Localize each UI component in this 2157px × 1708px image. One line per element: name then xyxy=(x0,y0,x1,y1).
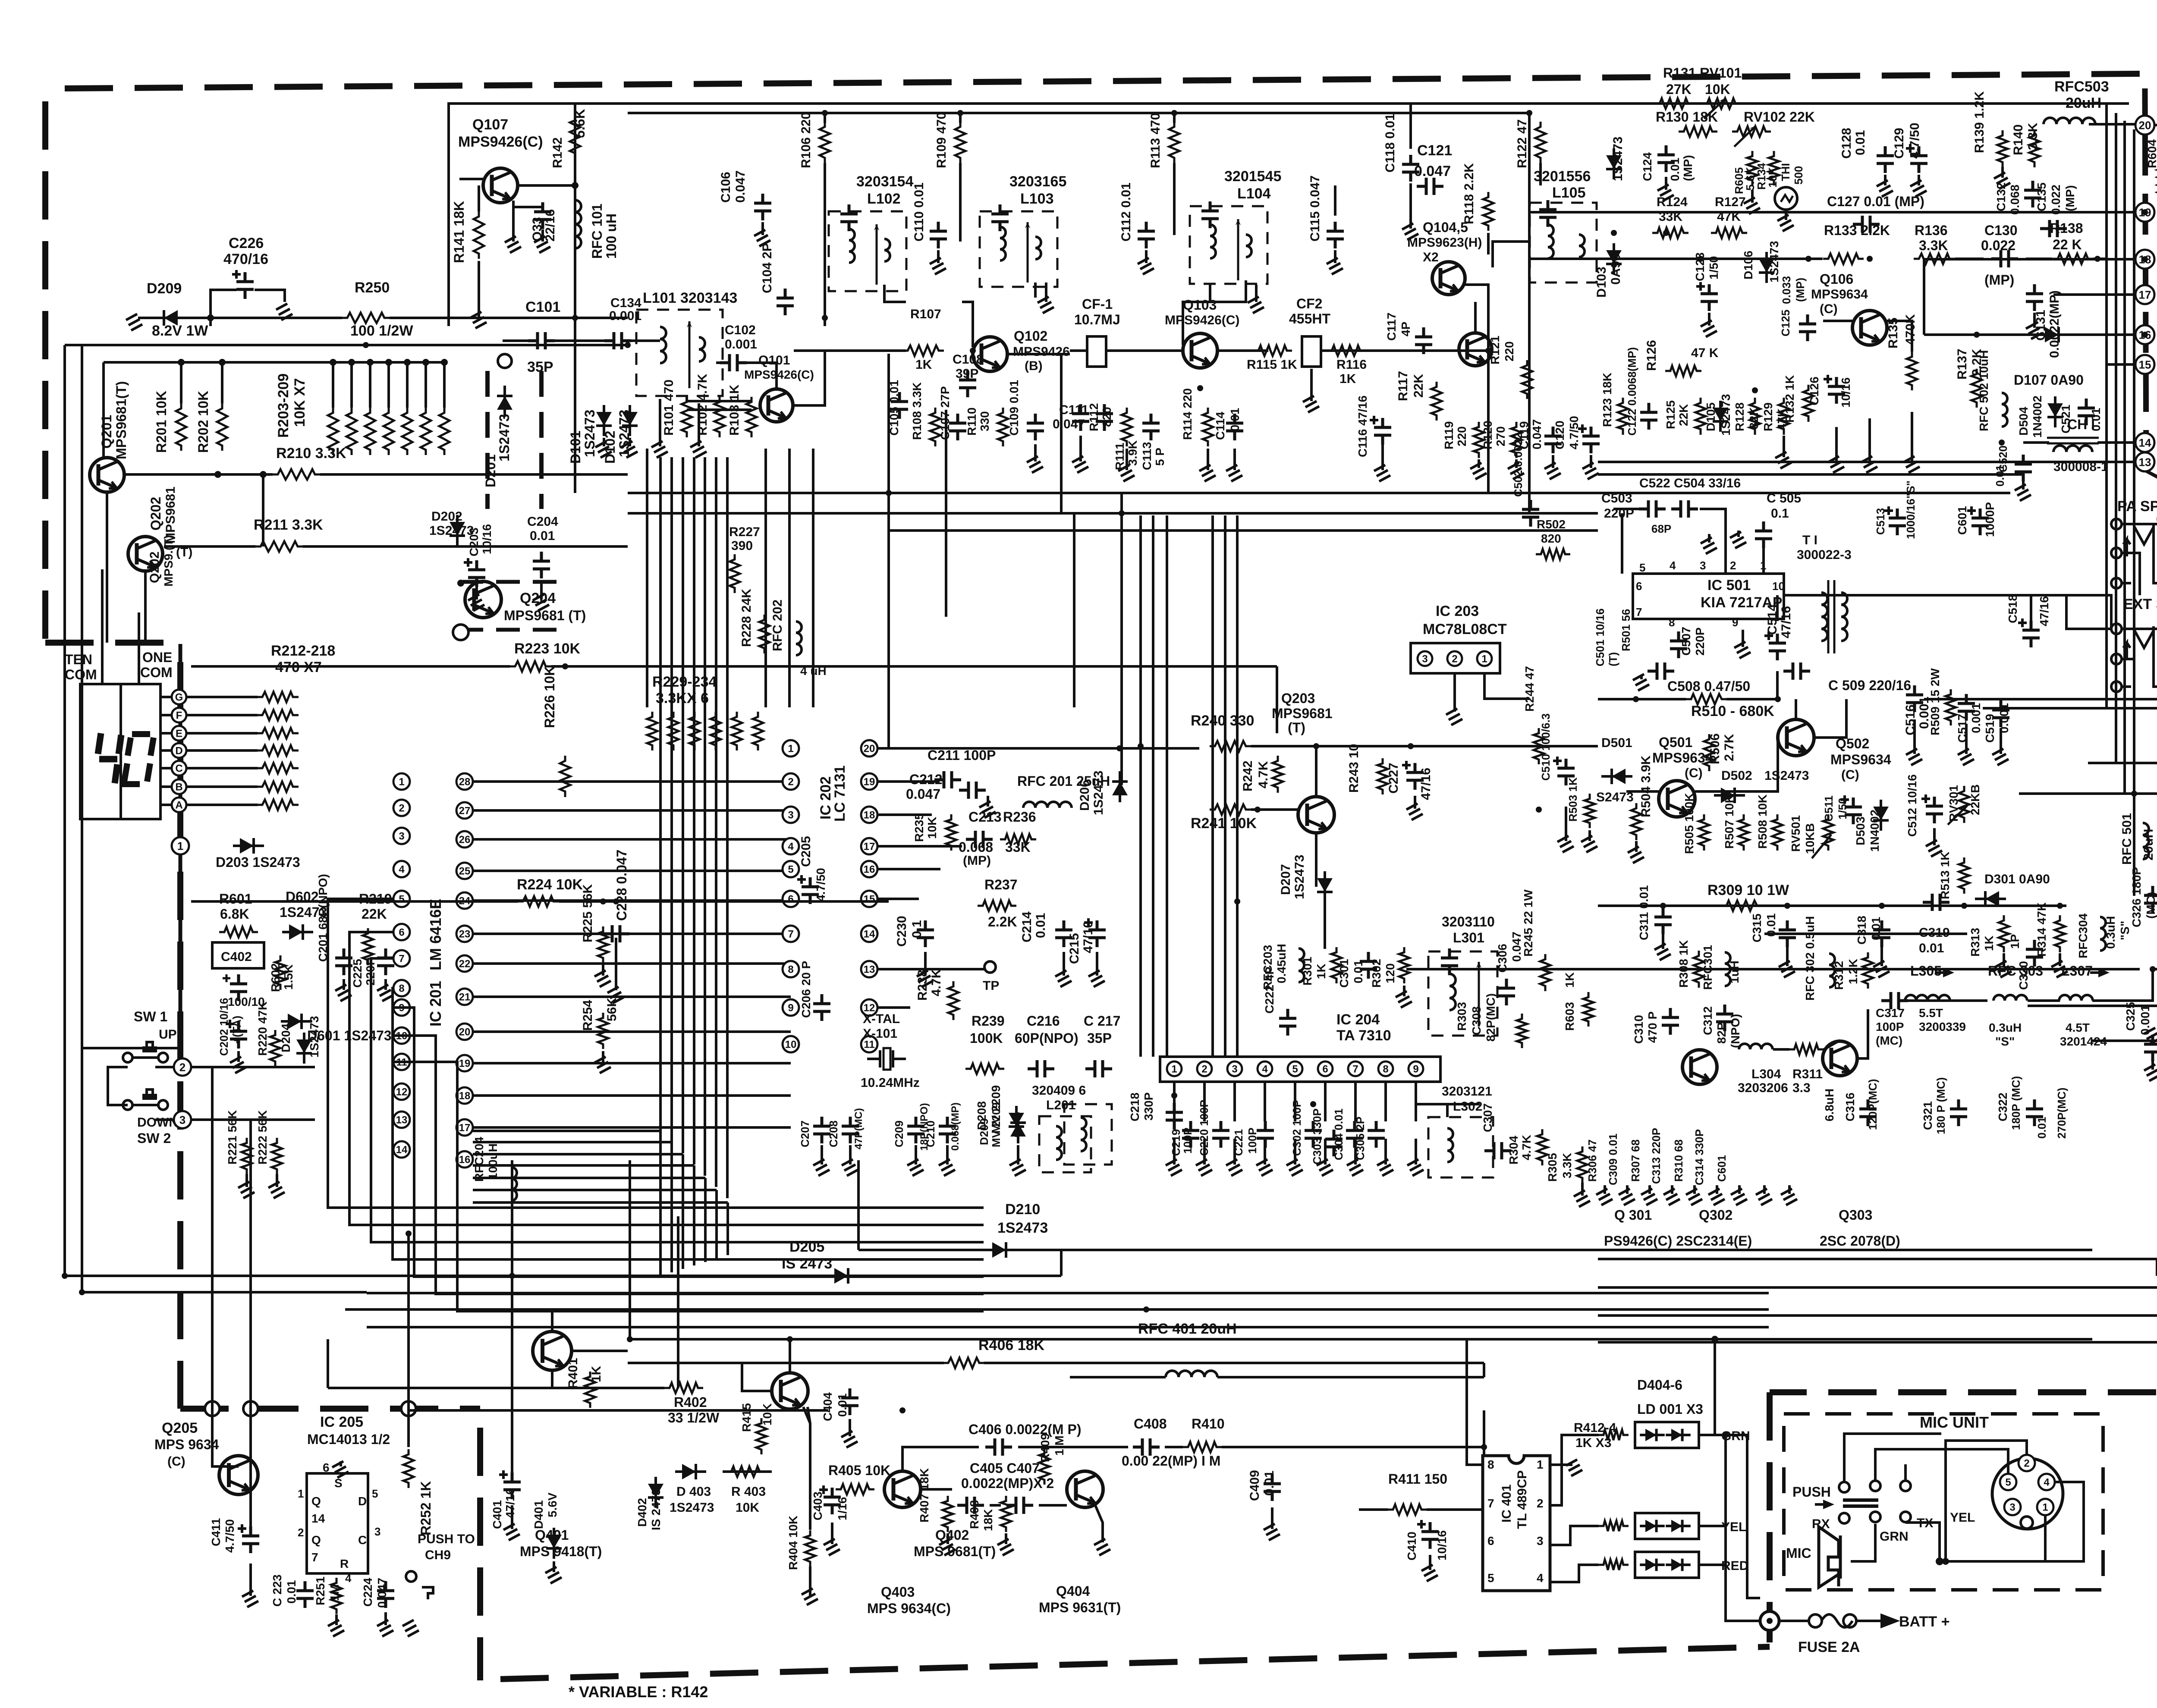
capacitor C114 xyxy=(1226,414,1243,440)
wire 19 line xyxy=(1924,258,2135,261)
capacitor C117 xyxy=(1415,327,1432,354)
diode D203 xyxy=(240,838,254,854)
svg-text:16: 16 xyxy=(864,864,875,876)
wire node2 vertical through border xyxy=(212,1067,239,1466)
svg-text:R124: R124 xyxy=(1657,195,1688,209)
svg-text:C510 100/6.3: C510 100/6.3 xyxy=(1539,713,1552,781)
junction dot 1912x737 xyxy=(822,315,828,321)
display segment node D xyxy=(172,743,186,758)
wire Q401 line xyxy=(572,1350,628,1352)
capacitor C411 xyxy=(238,1524,246,1533)
IC204 pin 2 xyxy=(1197,1061,1212,1076)
svg-text:R405 10K: R405 10K xyxy=(828,1463,890,1478)
ground C318 xyxy=(1873,942,1890,977)
wire IC401 top feed2 xyxy=(1483,1410,1485,1447)
svg-text:5: 5 xyxy=(399,894,404,905)
wire mic pin1 wire xyxy=(2045,1482,2084,1561)
junction R206 top xyxy=(385,359,392,366)
wire left vert 1 xyxy=(63,345,66,1276)
svg-text:390: 390 xyxy=(731,539,753,553)
capacitor C126 xyxy=(1828,377,1845,404)
junction dot 4121x1621 xyxy=(1775,696,1781,702)
resistor R131 xyxy=(1654,98,1693,109)
dashed box L101 xyxy=(636,310,723,396)
wire center bus v1 xyxy=(887,531,890,748)
LED D405 b xyxy=(1671,1520,1682,1532)
svg-text:R122 47: R122 47 xyxy=(1515,119,1529,168)
diode D501 xyxy=(1612,769,1626,784)
IC201 pin 23 xyxy=(456,926,473,942)
svg-text:C216: C216 xyxy=(1027,1013,1060,1029)
svg-text:1.2K: 1.2K xyxy=(1846,959,1860,984)
border left dashed xyxy=(42,101,48,643)
ground D209 left xyxy=(126,314,142,330)
junction dot 4862x600 xyxy=(2094,256,2100,262)
ground TX row x4148 xyxy=(1781,1185,1797,1205)
capacitor C519 xyxy=(1992,700,2009,727)
transistor Q204 xyxy=(465,581,501,618)
capacitor C127 xyxy=(1853,216,1880,233)
svg-text:E: E xyxy=(176,728,182,740)
mic plug notch xyxy=(2021,1516,2033,1529)
svg-text:C410: C410 xyxy=(1405,1532,1418,1560)
svg-text:D107 0A90: D107 0A90 xyxy=(2014,372,2084,388)
svg-text:1: 1 xyxy=(399,776,404,788)
svg-text:R109 470: R109 470 xyxy=(934,112,949,168)
svg-text:3201545: 3201545 xyxy=(1224,168,1281,185)
IC201 pin 10 xyxy=(393,1027,410,1044)
wire Q104 chain xyxy=(1465,285,1488,302)
capacitor C203 xyxy=(464,558,472,567)
svg-text:PS9426(C) 2SC2314(E): PS9426(C) 2SC2314(E) xyxy=(1604,1233,1752,1249)
svg-text:CH I: CH I xyxy=(2067,417,2095,432)
dashed box L302 xyxy=(1428,1117,1493,1177)
wire IC203 down xyxy=(1484,673,1529,699)
capacitor C402 xyxy=(230,974,247,1001)
transistor Q106 xyxy=(1852,311,1887,345)
diode D208 xyxy=(1009,1113,1024,1127)
wire R250 to right xyxy=(390,317,628,319)
svg-text:MC78L08CT: MC78L08CT xyxy=(1423,621,1507,637)
svg-text:(T): (T) xyxy=(1288,720,1305,735)
svg-text:2.2K: 2.2K xyxy=(988,914,1017,929)
resistor R127 xyxy=(1711,228,1747,238)
wire C101 to C134 xyxy=(553,339,606,342)
svg-text:R229-234: R229-234 xyxy=(652,674,717,690)
wire R402 rail join xyxy=(327,1339,329,1388)
ground C404 xyxy=(841,1419,858,1447)
junction dot 3440x3355 xyxy=(1481,1444,1487,1450)
svg-text:Q104,5: Q104,5 xyxy=(1423,220,1468,235)
wire drop x2722 xyxy=(1173,163,1176,235)
svg-text:IC 203: IC 203 xyxy=(1436,603,1479,619)
svg-text:D: D xyxy=(175,745,182,757)
svg-text:(B): (B) xyxy=(1025,359,1043,373)
svg-text:C130: C130 xyxy=(1984,223,2018,238)
svg-text:C219: C219 xyxy=(1170,1129,1182,1156)
IC201 pin 21 xyxy=(456,989,473,1005)
svg-text:R310 68: R310 68 xyxy=(1672,1140,1685,1182)
IC202 pin 19 xyxy=(861,773,877,790)
wire R402 rail left xyxy=(328,1387,664,1389)
connector pin 20 xyxy=(2135,116,2154,135)
resistor R251 xyxy=(331,1578,342,1614)
svg-text:RFC301: RFC301 xyxy=(1701,945,1714,990)
svg-text:D206: D206 xyxy=(1078,780,1092,811)
junction mic common xyxy=(1936,1557,1943,1565)
svg-text:22K: 22K xyxy=(1412,374,1426,398)
svg-text:20: 20 xyxy=(459,1027,471,1038)
wire led bus xyxy=(1747,1462,1760,1598)
wire top drop R109 xyxy=(959,113,962,123)
svg-text:R239: R239 xyxy=(972,1013,1005,1029)
resistor R309 xyxy=(1721,901,1762,911)
svg-text:MV 2209: MV 2209 xyxy=(990,1102,1003,1147)
wire Q101 out xyxy=(794,351,825,405)
wire IC401 pin2 to R412 xyxy=(1550,1435,1598,1505)
svg-text:22K: 22K xyxy=(362,906,387,922)
diode D102 xyxy=(622,412,638,426)
svg-text:R507 10K: R507 10K xyxy=(1723,794,1736,849)
svg-text:C127 0.01 (MP): C127 0.01 (MP) xyxy=(1827,194,1924,209)
wire segment C xyxy=(160,767,172,769)
ground C202 xyxy=(230,1051,246,1073)
BATT arrow xyxy=(1868,1615,1896,1626)
resistor R109 xyxy=(955,122,965,163)
capacitor C129 xyxy=(1910,146,1927,173)
wire R136 to C130 xyxy=(1955,257,1984,260)
svg-text:3203154: 3203154 xyxy=(856,173,913,190)
junction dot 2226x262 xyxy=(957,110,963,116)
transistor Q105 xyxy=(1459,333,1492,366)
ground R141 xyxy=(470,261,487,328)
resistor R134 xyxy=(1769,151,1779,185)
diode D401 xyxy=(546,1535,562,1548)
svg-text:C 217: C 217 xyxy=(1084,1013,1120,1029)
svg-text:C512 10/16: C512 10/16 xyxy=(1905,774,1919,837)
svg-text:C226: C226 xyxy=(229,235,264,251)
svg-text:R309 10 1W: R309 10 1W xyxy=(1707,882,1789,898)
resistor R403 xyxy=(726,1466,765,1477)
svg-text:220: 220 xyxy=(1503,341,1516,361)
svg-text:6: 6 xyxy=(1322,1064,1328,1075)
border bottom dashed xyxy=(500,1647,1770,1679)
capacitor C511 xyxy=(1840,795,1849,804)
ground C228 xyxy=(607,987,624,1003)
svg-text:1: 1 xyxy=(1537,1458,1544,1471)
junction dot 1398x2090 xyxy=(600,898,606,904)
svg-text:R133 2.2K: R133 2.2K xyxy=(1824,223,1890,238)
wire pin20 to PA xyxy=(2154,125,2157,129)
resistor R201 xyxy=(176,403,186,451)
svg-text:10/16: 10/16 xyxy=(1435,1530,1449,1560)
IC202 pin 18 xyxy=(861,807,877,823)
svg-text:27: 27 xyxy=(459,805,471,817)
svg-text:RFC 401 20uH: RFC 401 20uH xyxy=(1138,1321,1237,1337)
diode D503 xyxy=(1873,807,1889,820)
svg-text:R227: R227 xyxy=(729,525,760,539)
choke RFC502 xyxy=(2002,393,2007,427)
IC201 pin 12 xyxy=(393,1083,410,1100)
wire IC201 right pin bus y2614 xyxy=(473,1126,791,1129)
svg-text:8: 8 xyxy=(1669,616,1675,629)
connector pin 14 xyxy=(2135,433,2154,452)
diode D202 xyxy=(450,522,465,536)
svg-text:3: 3 xyxy=(1232,1064,1237,1075)
wire LED bus YEL xyxy=(1699,1525,1726,1527)
wire Q402 rail xyxy=(628,1338,2092,1341)
svg-text:C135: C135 xyxy=(2035,182,2048,211)
bus vertical center x1775 xyxy=(764,449,767,707)
wire IC204 pin3 drop xyxy=(1233,1082,1236,1121)
ground C325 xyxy=(2144,1061,2157,1081)
wire audio out xyxy=(1784,594,2066,597)
wire drop x3095 xyxy=(1334,185,1336,216)
wire bus y2998 xyxy=(367,1292,1769,1294)
svg-text:R241 10K: R241 10K xyxy=(1191,815,1257,832)
svg-text:3203206: 3203206 xyxy=(1738,1081,1788,1095)
resistor R235 xyxy=(946,814,956,851)
bus vertical mid x2644 xyxy=(1139,515,1142,1057)
bus vertical x2460 xyxy=(1060,354,1063,513)
svg-text:5: 5 xyxy=(788,864,793,876)
dashed box Q204 xyxy=(459,580,559,584)
pot RV102 arrow xyxy=(1734,126,1756,147)
junction dot 2644x1730 xyxy=(1138,743,1144,749)
IC202 pin 17 xyxy=(861,838,877,854)
coil L307 xyxy=(2059,995,2093,1001)
svg-text:A: A xyxy=(175,800,182,811)
junction dot 2060x1143 xyxy=(886,490,892,496)
svg-text:RV102 22K: RV102 22K xyxy=(1744,109,1815,125)
svg-text:220P: 220P xyxy=(1693,628,1707,656)
ground R408 xyxy=(997,1533,1014,1555)
capacitor C305 xyxy=(1368,1121,1385,1148)
ground C212 xyxy=(979,796,996,818)
resistor R226 xyxy=(560,756,570,797)
svg-text:25: 25 xyxy=(459,866,471,877)
svg-text:R508 10K: R508 10K xyxy=(1756,794,1769,849)
capacitor C135 xyxy=(2040,220,2067,237)
svg-text:R250: R250 xyxy=(355,279,390,296)
ground R314 xyxy=(2051,953,2068,977)
svg-text:R123 18K: R123 18K xyxy=(1600,373,1614,427)
corner bundle horizontal 7 xyxy=(473,1201,728,1204)
wire pin16 left xyxy=(1924,333,2038,336)
wire pin8 left xyxy=(2153,968,2157,970)
junction R208 top xyxy=(422,359,429,366)
wire R133 line xyxy=(1529,257,1823,260)
wire Q107 base xyxy=(459,178,483,180)
resistor R107 xyxy=(902,345,944,356)
wire vert Q401 base xyxy=(551,1309,553,1333)
svg-text:(MP): (MP) xyxy=(1984,272,2014,288)
svg-text:R125: R125 xyxy=(1664,400,1677,429)
ground IC401 pin1 xyxy=(1566,1460,1582,1476)
capacitor C124 xyxy=(1657,145,1675,172)
svg-text:TP: TP xyxy=(983,979,999,993)
svg-text:13: 13 xyxy=(2139,455,2151,468)
wire C518 line xyxy=(2030,595,2032,621)
display segment node A xyxy=(172,797,186,812)
ptt contact tx xyxy=(1900,1512,1911,1522)
svg-text:R139 1.2K: R139 1.2K xyxy=(1972,91,1987,153)
svg-text:R305: R305 xyxy=(1546,1153,1559,1182)
resistor R243 xyxy=(1377,758,1388,794)
svg-text:MPS9681: MPS9681 xyxy=(1272,706,1333,721)
wire IC201 right pin bus y2234 xyxy=(473,962,791,965)
wire ground row y950 xyxy=(687,408,751,411)
bus vertical x2060b xyxy=(887,354,890,531)
svg-text:17: 17 xyxy=(459,1122,471,1134)
svg-text:D: D xyxy=(358,1494,367,1508)
IC202 pin 11 xyxy=(861,1036,877,1052)
IC204 pin 6 xyxy=(1318,1061,1333,1076)
svg-text:19: 19 xyxy=(459,1058,471,1070)
svg-text:1K: 1K xyxy=(1339,372,1356,386)
switch SW1 left contact xyxy=(123,1053,132,1062)
wire IC201 right pin bus y2088 xyxy=(473,899,791,902)
wire C228 gnd xyxy=(615,938,617,990)
svg-text:C503: C503 xyxy=(1601,491,1632,505)
svg-text:YEL: YEL xyxy=(1721,1520,1746,1534)
capacitor C508 xyxy=(1648,662,1674,680)
svg-text:7: 7 xyxy=(1487,1497,1494,1510)
IC401 box xyxy=(1483,1456,1550,1591)
capacitor C513 xyxy=(1884,506,1893,515)
resistor R206 xyxy=(384,408,394,455)
wire pin14 line xyxy=(2097,441,2135,444)
svg-text:MPS 9634: MPS 9634 xyxy=(154,1437,219,1452)
svg-text:R245 22 1W: R245 22 1W xyxy=(1522,889,1535,957)
svg-text:C118 0.01: C118 0.01 xyxy=(1383,113,1397,173)
svg-text:8: 8 xyxy=(1487,1458,1494,1471)
IC204 box xyxy=(1160,1057,1440,1082)
transistor Q201 xyxy=(90,458,124,492)
wire R209 top xyxy=(443,362,446,408)
junction R202 top xyxy=(219,359,226,366)
svg-text:0.047: 0.047 xyxy=(906,786,940,802)
svg-text:MPS 9634(C): MPS 9634(C) xyxy=(867,1601,951,1616)
junction Q202 drop xyxy=(260,471,267,478)
svg-text:C211 100P: C211 100P xyxy=(928,747,996,763)
svg-text:R240 330: R240 330 xyxy=(1191,713,1254,729)
svg-text:MPS9681 (T): MPS9681 (T) xyxy=(504,608,586,623)
bus vertical center x1830 xyxy=(788,449,791,707)
ground R129 xyxy=(1775,436,1792,468)
ground IC204 pin8 cap xyxy=(1377,1139,1393,1176)
svg-text:4.7/50: 4.7/50 xyxy=(223,1519,236,1553)
coil L101 secondary xyxy=(699,337,705,361)
svg-text:C205: C205 xyxy=(799,836,813,867)
svg-text:R119: R119 xyxy=(1442,421,1456,449)
switch SW2 left contact xyxy=(123,1100,132,1110)
svg-text:C522 C504 33/16: C522 C504 33/16 xyxy=(1639,476,1741,490)
wire IC201 right pin bus y2019 xyxy=(473,870,791,872)
svg-text:R130 18K: R130 18K xyxy=(1656,109,1718,125)
resistor R513 xyxy=(1959,857,1969,894)
junction Q107 collector xyxy=(572,182,579,189)
junction dot 4640x1026 xyxy=(1999,440,2005,446)
capacitor C325 xyxy=(2144,1035,2157,1061)
wire seg A to resistor xyxy=(186,804,258,806)
bus vertical x2193 xyxy=(945,410,947,617)
resistor R250 xyxy=(342,313,390,323)
svg-text:R228 24K: R228 24K xyxy=(739,589,754,647)
svg-text:R504 3.9K: R504 3.9K xyxy=(1639,755,1653,817)
svg-text:0.01: 0.01 xyxy=(1352,960,1365,984)
svg-text:1K: 1K xyxy=(1982,936,1996,951)
svg-text:(MP): (MP) xyxy=(1794,278,1807,302)
resistor R113 xyxy=(1169,122,1179,163)
svg-text:1000/16"S": 1000/16"S" xyxy=(1904,480,1917,539)
coil L105 primary xyxy=(1548,225,1553,258)
svg-text:270: 270 xyxy=(1494,426,1507,446)
svg-text:5 P: 5 P xyxy=(1153,448,1167,466)
svg-text:R137: R137 xyxy=(1955,349,1969,380)
svg-text:C225: C225 xyxy=(351,959,364,988)
capacitor C322 xyxy=(2026,1099,2043,1126)
svg-text:R141 18K: R141 18K xyxy=(451,201,467,263)
ground C225 xyxy=(377,979,393,1001)
svg-text:R142: R142 xyxy=(550,137,565,168)
svg-text:300022-3: 300022-3 xyxy=(1797,548,1852,562)
dashed box L103 xyxy=(980,211,1057,287)
resistor R138 xyxy=(2053,254,2093,264)
wire spk line xyxy=(1983,707,2157,710)
wire pin13 line xyxy=(1598,461,2135,463)
svg-text:18P(NPO): 18P(NPO) xyxy=(918,1103,930,1151)
svg-text:D103: D103 xyxy=(1594,267,1609,298)
svg-text:L104: L104 xyxy=(1237,185,1271,202)
wire L101 in xyxy=(628,339,636,342)
svg-text:R220 47K: R220 47K xyxy=(256,1002,269,1056)
junction R210 xyxy=(214,471,221,478)
wire Q404 emitter gnd xyxy=(1095,1504,1103,1542)
svg-text:C115 0.047: C115 0.047 xyxy=(1308,176,1322,242)
capacitor C134 xyxy=(604,332,631,349)
display common node 1 xyxy=(172,837,189,854)
svg-text:SW 1: SW 1 xyxy=(134,1009,167,1024)
wire TX out chain xyxy=(1907,999,1987,1002)
jack PA SP tip xyxy=(2111,519,2122,529)
svg-text:4: 4 xyxy=(1537,1571,1544,1585)
svg-text:IC 401: IC 401 xyxy=(1500,1485,1514,1523)
bus wire second xyxy=(628,112,1529,114)
transistor Q303b xyxy=(1823,1041,1857,1076)
svg-text:C601: C601 xyxy=(1715,1155,1728,1182)
corner bundle horizontal 2 xyxy=(473,1141,672,1143)
svg-text:D301 0A90: D301 0A90 xyxy=(1984,872,2050,886)
junction dot 3270x1730 xyxy=(1408,743,1414,749)
wire 8.2V rail 2 xyxy=(65,344,628,346)
wire RFC503 line xyxy=(2089,123,2135,126)
capacitor C411 xyxy=(242,1526,259,1553)
svg-text:YEL: YEL xyxy=(1950,1510,1975,1525)
IC202 pin 20 xyxy=(861,740,877,757)
resistor R240 xyxy=(1210,741,1251,751)
ground C115 xyxy=(1327,250,1343,274)
ground R135 xyxy=(1903,412,1920,473)
junction dot 4775x2100 xyxy=(2057,903,2063,909)
ground R313 xyxy=(1995,953,2012,977)
svg-text:R243 10: R243 10 xyxy=(1347,744,1361,793)
junction dot 1187x2958 xyxy=(509,1273,515,1279)
svg-text:Q107: Q107 xyxy=(472,116,508,133)
capacitor C216 xyxy=(1028,1060,1054,1077)
IC201 pin 9 xyxy=(393,999,410,1016)
wire R202 span xyxy=(221,362,223,403)
